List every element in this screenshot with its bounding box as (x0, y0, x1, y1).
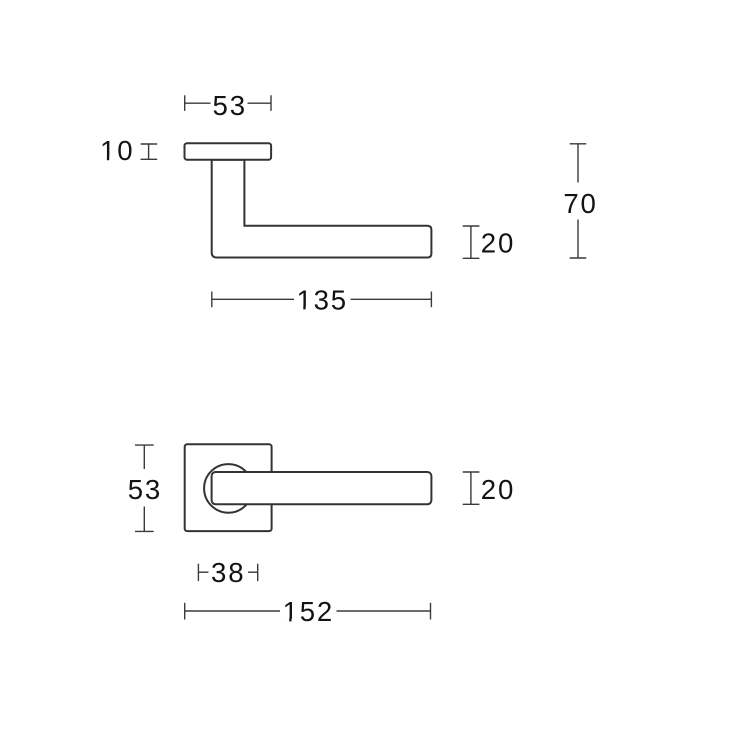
dimension 10 (rose thickness, left) (100, 135, 157, 166)
handle stem and lever profile (side view) (212, 160, 432, 258)
dimension 53 (rose width, top) (185, 90, 271, 121)
svg-text:152: 152 (283, 596, 334, 627)
dimension 38 (neck diameter, below square rose) (198, 557, 257, 588)
svg-text:53: 53 (213, 90, 247, 121)
dimension 70 (total projection, right) (563, 144, 597, 258)
dimension 20 (lever thickness, right of front view) (463, 472, 515, 505)
rose plate (side view) (185, 143, 272, 160)
dimension 152 (total length, bottom) (185, 596, 431, 627)
svg-text:20: 20 (481, 227, 515, 258)
svg-text:135: 135 (296, 284, 347, 315)
dimension 135 (lever length, below side view) (212, 284, 432, 315)
svg-text:38: 38 (211, 557, 245, 588)
dimension 53 (rose height, left of front view) (128, 445, 162, 531)
svg-text:70: 70 (563, 188, 597, 219)
svg-text:20: 20 (481, 474, 515, 505)
svg-text:10: 10 (100, 135, 134, 166)
square rose (front view) (185, 444, 272, 531)
svg-text:53: 53 (128, 474, 162, 505)
lever grip (front view) (212, 472, 432, 504)
neck circle (front view) (204, 464, 253, 513)
dimension 20 (lever thickness, right of side view) (463, 226, 515, 258)
